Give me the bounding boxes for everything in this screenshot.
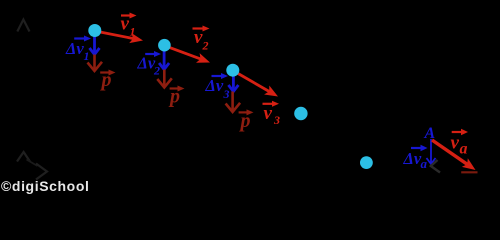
label p2 bbox=[168, 86, 185, 108]
svg-text:2: 2 bbox=[153, 64, 160, 78]
label Δv2 bbox=[137, 51, 162, 78]
vector Δva at A (down) bbox=[427, 139, 436, 164]
vector v2 bbox=[164, 45, 210, 62]
svg-text:v: v bbox=[264, 103, 273, 124]
axis arrowhead top-left bbox=[17, 20, 29, 32]
svg-text:a: a bbox=[421, 156, 428, 171]
ball 1 bbox=[88, 24, 101, 37]
label v2 bbox=[193, 26, 210, 53]
svg-text:a: a bbox=[460, 141, 468, 158]
svg-text:2: 2 bbox=[202, 39, 209, 53]
svg-text:p: p bbox=[100, 69, 112, 91]
svg-text:Δv: Δv bbox=[65, 39, 84, 58]
vector v3 bbox=[233, 70, 278, 96]
dark red baseline under inset arrow bbox=[461, 171, 477, 173]
axis arrowhead bottom-left right bbox=[36, 164, 47, 180]
vector Δv1 (down from ball 1) bbox=[90, 36, 100, 55]
vector Δv2 (down from ball 2) bbox=[159, 51, 169, 70]
label v1 bbox=[121, 13, 137, 39]
label Δv3 bbox=[205, 73, 230, 101]
svg-text:p: p bbox=[239, 110, 251, 132]
label p1 bbox=[100, 69, 116, 91]
dark chevron arrowhead at A bbox=[431, 160, 440, 173]
svg-text:v: v bbox=[121, 14, 130, 35]
vector v1 bbox=[95, 31, 143, 43]
label v3 bbox=[263, 101, 281, 127]
vector va at A bbox=[432, 140, 476, 170]
label va at A bbox=[451, 129, 469, 158]
ball 2 bbox=[158, 39, 171, 52]
svg-text:Δv: Δv bbox=[403, 149, 422, 168]
axis diagonal bottom-left bbox=[27, 160, 38, 167]
svg-text:v: v bbox=[451, 133, 460, 154]
ball 4 bbox=[294, 107, 307, 120]
svg-text:Δv: Δv bbox=[137, 54, 156, 73]
label Δva at A bbox=[403, 145, 428, 171]
vector Δv3 (down from ball 3) bbox=[228, 76, 238, 92]
label p3 bbox=[239, 109, 254, 132]
label point A bbox=[424, 125, 436, 142]
svg-text:1: 1 bbox=[130, 25, 136, 39]
vector p2 (weight at ball 2) bbox=[157, 70, 172, 88]
svg-text:3: 3 bbox=[273, 113, 280, 127]
svg-text:©digiSchool: ©digiSchool bbox=[1, 178, 89, 194]
svg-text:p: p bbox=[168, 86, 180, 108]
axis arrowhead bottom-left up bbox=[17, 152, 30, 162]
svg-text:3: 3 bbox=[223, 87, 230, 101]
ball 3 bbox=[226, 64, 239, 77]
svg-text:Δv: Δv bbox=[205, 76, 224, 95]
svg-text:1: 1 bbox=[84, 49, 90, 63]
vector p1 (weight at ball 1) bbox=[88, 55, 103, 72]
vector p3 (weight at ball 3) bbox=[226, 92, 241, 113]
label Δv1 bbox=[65, 36, 91, 64]
ball 5 bbox=[360, 156, 373, 169]
